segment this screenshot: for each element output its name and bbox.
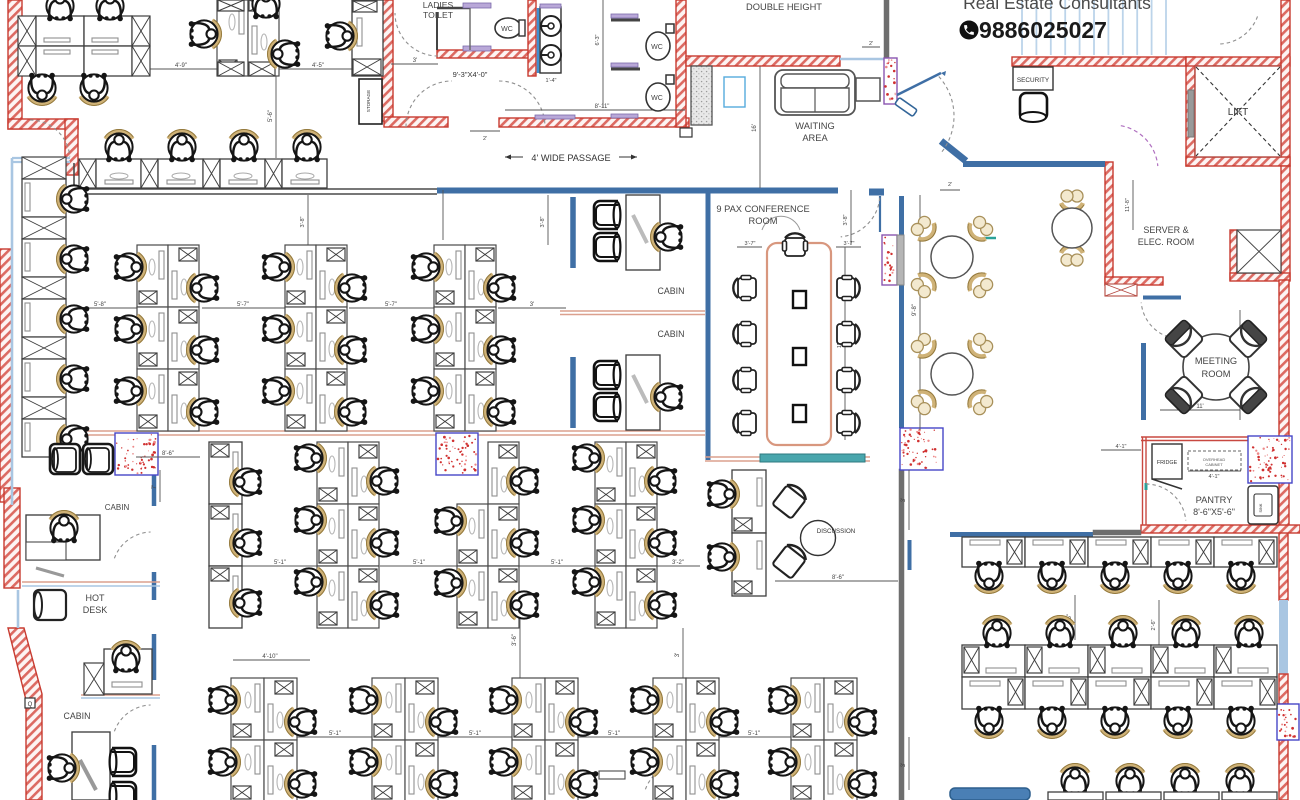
svg-text:11'-8": 11'-8" [1125, 198, 1131, 212]
svg-text:6'-3": 6'-3" [595, 34, 601, 45]
svg-text:3'-7": 3'-7" [745, 241, 756, 247]
svg-text:WC: WC [651, 95, 663, 102]
svg-text:CABINET: CABINET [1205, 462, 1223, 467]
svg-text:SECURITY: SECURITY [1017, 77, 1050, 84]
svg-text:4'-1": 4'-1" [1209, 474, 1220, 480]
svg-text:4'-5": 4'-5" [312, 63, 324, 69]
svg-text:DESK: DESK [83, 605, 108, 615]
svg-text:3': 3' [530, 302, 534, 308]
svg-text:4'-1": 4'-1" [1116, 444, 1127, 450]
svg-text:9'-3"X4'-0": 9'-3"X4'-0" [453, 70, 488, 79]
svg-text:3'-2": 3'-2" [672, 560, 684, 566]
svg-text:3'-6": 3'-6" [512, 634, 518, 646]
svg-text:5'-1": 5'-1" [608, 731, 620, 737]
svg-text:DISCUSSION: DISCUSSION [817, 528, 856, 535]
svg-text:TOILET: TOILET [423, 10, 454, 20]
svg-text:CABIN: CABIN [658, 286, 685, 296]
svg-text:5'-1": 5'-1" [329, 731, 341, 737]
svg-text:8'-11": 8'-11" [595, 104, 610, 110]
svg-text:WAITING: WAITING [795, 121, 834, 131]
svg-text:3': 3' [901, 498, 907, 502]
svg-text:8'-6"X5'-6": 8'-6"X5'-6" [1193, 507, 1235, 517]
svg-text:CABIN: CABIN [105, 503, 130, 512]
svg-text:3'-8": 3'-8" [540, 216, 546, 227]
svg-text:16': 16' [752, 124, 758, 132]
svg-text:4' WIDE PASSAGE: 4' WIDE PASSAGE [531, 153, 610, 163]
svg-text:8'-6": 8'-6" [162, 451, 174, 457]
svg-text:Real Estate Consultants: Real Estate Consultants [963, 0, 1151, 13]
svg-text:CABIN: CABIN [658, 329, 685, 339]
svg-text:SINK: SINK [1259, 503, 1263, 512]
svg-text:LIFT: LIFT [1228, 107, 1249, 118]
svg-text:5'-6": 5'-6" [268, 110, 274, 122]
svg-text:DOUBLE HEIGHT: DOUBLE HEIGHT [746, 2, 822, 12]
svg-text:9'-8": 9'-8" [912, 304, 918, 316]
svg-text:ELEC. ROOM: ELEC. ROOM [1138, 237, 1195, 247]
svg-text:4'-10": 4'-10" [262, 654, 277, 660]
svg-text:HOT: HOT [86, 593, 106, 603]
svg-text:9886025027: 9886025027 [979, 17, 1107, 43]
svg-text:9 PAX CONFERENCE: 9 PAX CONFERENCE [716, 204, 809, 214]
svg-text:2': 2' [948, 182, 952, 188]
svg-text:Q: Q [28, 702, 33, 708]
svg-text:4'-9": 4'-9" [175, 63, 187, 69]
svg-text:ROOM: ROOM [749, 216, 778, 226]
svg-text:ROOM: ROOM [1202, 369, 1231, 379]
svg-text:7': 7' [152, 485, 158, 489]
svg-text:2': 2' [483, 136, 487, 142]
svg-text:5'-7": 5'-7" [385, 302, 397, 308]
svg-text:CABIN: CABIN [64, 711, 91, 721]
svg-text:3': 3' [901, 763, 907, 767]
svg-text:AREA: AREA [802, 133, 828, 143]
svg-text:5'-1": 5'-1" [748, 731, 760, 737]
svg-text:MEETING: MEETING [1195, 356, 1237, 366]
svg-text:5'-8": 5'-8" [94, 302, 106, 308]
svg-text:WC: WC [651, 44, 663, 51]
svg-text:5'-1": 5'-1" [413, 560, 425, 566]
svg-text:8'-6": 8'-6" [832, 575, 844, 581]
svg-text:STORAGE: STORAGE [366, 90, 371, 112]
svg-text:5'-7": 5'-7" [237, 302, 249, 308]
svg-text:2'-6": 2'-6" [1151, 619, 1157, 630]
svg-text:3': 3' [413, 58, 417, 64]
svg-text:3'-8": 3'-8" [843, 214, 849, 225]
svg-text:5'-1": 5'-1" [551, 560, 563, 566]
svg-text:PANTRY: PANTRY [1196, 495, 1233, 505]
svg-text:SERVER &: SERVER & [1143, 225, 1188, 235]
svg-text:FRIDGE: FRIDGE [1157, 460, 1178, 466]
svg-text:5'-1": 5'-1" [274, 560, 286, 566]
svg-text:1'-4": 1'-4" [546, 78, 557, 84]
svg-text:WC: WC [501, 26, 513, 33]
svg-text:3': 3' [675, 653, 681, 657]
svg-text:5'-1": 5'-1" [469, 731, 481, 737]
svg-text:2': 2' [869, 41, 873, 47]
svg-text:3'-7": 3'-7" [844, 241, 855, 247]
svg-text:3'-8": 3'-8" [300, 216, 306, 227]
svg-text:11': 11' [1196, 404, 1203, 410]
